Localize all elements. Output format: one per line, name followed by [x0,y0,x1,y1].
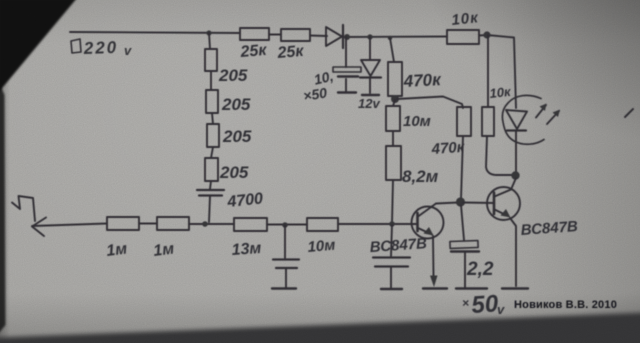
svg-text:ВС847В: ВС847В [369,235,427,256]
wire: rail to R 470k [390,38,394,62]
capacitor at 13M node [273,225,299,288]
wire: between 25k resistors [269,34,281,36]
node: 4700 cap junction [202,221,208,227]
wire: 8.2M to Q1 base node [392,180,393,223]
wire: 220V top rail [70,32,240,33]
wire: Q1 emitter to ground [432,236,435,276]
svg-text:25к: 25к [239,42,268,61]
capacitor at Q1 base [373,225,410,288]
svg-text:470к: 470к [402,70,442,91]
node: diode output junction [344,34,350,40]
wire: R 10k vertical to LED cathode node [486,136,512,175]
wire: node down to C 2.2 [461,205,464,240]
node: rail / 205-chain junction [206,30,211,35]
resistor 10M horizontal [307,218,338,256]
svg-text:×: × [462,296,469,310]
diode D1 [326,25,343,48]
wire [139,223,157,225]
ground: under C 10uF [338,91,356,93]
resistor 205 #2 [206,90,251,114]
resistor 470k #2 [430,107,471,158]
svg-text:10м: 10м [403,113,431,130]
svg-text:10м: 10м [307,237,336,256]
resistor 13M [231,218,267,259]
svg-text:×50: ×50 [302,84,328,104]
svg-text:v: v [124,43,132,58]
wire: Q2 emitter to ground [510,218,516,286]
wire: 10M to Q1 base [338,223,416,225]
wire: rail to zener [369,37,371,60]
wire: Q1 collector to node [436,203,458,204]
wire [210,181,211,189]
node: zener branch junction [367,34,372,39]
svg-text:50: 50 [471,290,500,319]
node: 10k output junction [483,31,490,38]
svg-text:1м: 1м [105,241,128,260]
resistor 25k #1 [239,28,269,61]
resistor 10k horizontal [447,9,480,44]
resistor 470k #1 [388,62,443,96]
node: 470k branch junction [388,36,392,40]
wire [392,131,394,146]
ground: Q1 emitter [423,287,447,289]
svg-text:25к: 25к [276,43,305,62]
ground: under zener [362,94,379,96]
antenna probe symbol [12,196,46,236]
LED light arrows [536,104,560,125]
wire: LED cathode down to collector node [515,131,517,173]
ground: under 13M node cap [272,287,296,289]
svg-text:v: v [497,302,505,317]
resistor 10k vertical [482,84,513,136]
svg-text:2,2: 2,2 [466,259,494,280]
wire [267,224,307,226]
label 220v input [71,38,132,58]
wire: antenna to R 1M [32,224,107,227]
capacitor 4700 [197,190,264,211]
transistor Q1 BC847B [369,204,443,257]
wire: 25k to diode anode [310,35,327,38]
resistor 205 #3 [207,124,252,147]
LED VD2 with housing [502,95,544,144]
svg-text:205: 205 [219,163,249,182]
wire [210,71,212,90]
wire: rail to C 10uF [345,37,347,67]
resistor 1M #1 [105,217,139,260]
wire: top node to LED anode [487,35,516,108]
svg-text:8,2м: 8,2м [402,167,439,186]
capacitor 2.2 x50v electrolytic [450,241,494,287]
node: Q1 base junction [389,221,395,227]
wire: divider node to R 470k #2 [397,97,463,109]
resistor 25k #2 [276,29,310,62]
label x50v rating [462,290,505,319]
svg-text:1м: 1м [152,241,175,260]
node: filter cap junction [282,222,288,228]
node: collector/base coupling junction [456,197,465,206]
ground: Q2 emitter [502,287,528,289]
transistor Q2 BC847B [487,178,579,239]
wire: rail to R 205 #1 [209,33,210,49]
svg-text:13м: 13м [231,240,262,259]
wire: 10k resistor to node [479,34,487,37]
resistor 8.2M [386,146,439,186]
svg-text:205: 205 [222,127,252,146]
svg-text:470к: 470к [430,139,466,158]
resistor 1M #2 [152,217,189,260]
svg-text:220: 220 [82,38,118,58]
svg-text:10к: 10к [489,84,513,101]
node: divider junction [391,95,399,103]
ground: under C 2.2 [456,287,487,289]
resistor 205 #1 [205,49,248,85]
wire: 470k #2 down to base node [461,136,463,199]
resistor 10M [386,100,431,131]
svg-text:205: 205 [221,95,251,114]
Q1 emitter arrowhead [430,276,438,288]
wire [189,223,234,225]
wire: node to Q2 base [463,202,494,205]
zener diode 12v [358,60,381,111]
wire: diode cathode to 10k resistor [345,36,447,39]
ground: under Q1 base cap [381,288,402,290]
capacitor 10uF x50 electrolytic [302,67,361,104]
resistor 205 #4 [205,158,249,182]
stray pen mark [625,109,633,117]
wire: 4700 to bottom rail [209,196,210,222]
svg-text:10,: 10, [312,68,335,88]
svg-text:205: 205 [218,66,248,85]
wire [212,113,213,124]
svg-text:Новиков В.В. 2010: Новиков В.В. 2010 [514,299,617,311]
svg-text:4700: 4700 [226,190,264,211]
svg-text:12v: 12v [358,96,380,111]
node: LED / 10k / Q2 collector junction [511,171,519,179]
wire: top node down to R 10k vertical [487,35,489,107]
svg-text:ВС847В: ВС847В [520,218,578,239]
wire [211,147,213,158]
svg-text:10к: 10к [451,9,480,29]
